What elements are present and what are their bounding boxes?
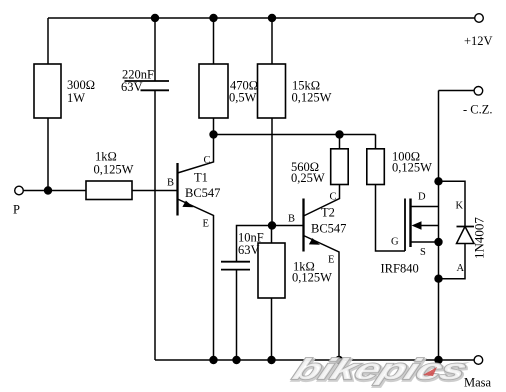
svg-text:C: C bbox=[330, 192, 337, 203]
svg-text:T1: T1 bbox=[194, 171, 208, 185]
svg-text:0,25W: 0,25W bbox=[291, 171, 325, 185]
svg-text:0,125W: 0,125W bbox=[292, 271, 332, 285]
svg-text:S: S bbox=[420, 247, 426, 258]
svg-text:B: B bbox=[288, 214, 295, 225]
svg-text:E: E bbox=[328, 255, 334, 266]
svg-text:63V: 63V bbox=[121, 80, 143, 94]
svg-text:BC547: BC547 bbox=[185, 186, 220, 200]
svg-text:1W: 1W bbox=[67, 91, 85, 105]
svg-text:E: E bbox=[203, 219, 209, 230]
svg-text:IRF840: IRF840 bbox=[381, 262, 419, 276]
svg-text:0,125W: 0,125W bbox=[94, 163, 134, 177]
svg-text:C: C bbox=[204, 155, 211, 166]
svg-text:D: D bbox=[418, 192, 426, 203]
svg-text:0,5W: 0,5W bbox=[229, 91, 257, 105]
svg-text:0,125W: 0,125W bbox=[392, 161, 432, 175]
svg-text:bikepics: bikepics bbox=[288, 354, 470, 386]
svg-text:T2: T2 bbox=[321, 206, 335, 220]
svg-text:Masa: Masa bbox=[464, 376, 492, 390]
svg-text:K: K bbox=[456, 200, 464, 211]
svg-text:B: B bbox=[167, 178, 174, 189]
svg-text:1N4007: 1N4007 bbox=[472, 217, 487, 259]
svg-text:A: A bbox=[457, 263, 465, 274]
svg-text:300Ω: 300Ω bbox=[67, 78, 95, 92]
svg-text:- C.Z.: - C.Z. bbox=[463, 102, 493, 116]
svg-text:63V: 63V bbox=[238, 243, 260, 257]
svg-text:P: P bbox=[13, 203, 20, 217]
svg-text:0,125W: 0,125W bbox=[292, 91, 332, 105]
svg-text:1kΩ: 1kΩ bbox=[95, 150, 117, 164]
svg-text:BC547: BC547 bbox=[311, 222, 346, 236]
svg-text:+12V: +12V bbox=[464, 34, 493, 48]
svg-text:G: G bbox=[391, 237, 399, 248]
